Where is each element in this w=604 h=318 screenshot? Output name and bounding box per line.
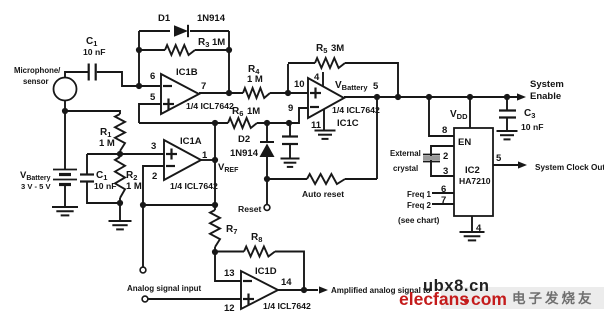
label 1/4 ICL7642 (IC1A) (170, 181, 218, 191)
svg-text:7: 7 (441, 195, 446, 206)
svg-text:3 V - 5 V: 3 V - 5 V (21, 182, 51, 191)
ground (IC2 pin4) (460, 232, 485, 240)
node VDD junction (426, 94, 432, 100)
node pin9 junction (286, 120, 292, 126)
svg-text:EN: EN (458, 137, 471, 148)
IC1C plus symbol (310, 88, 321, 99)
label 10 nF (bypass) (94, 181, 116, 191)
svg-text:2: 2 (152, 171, 157, 182)
svg-text:3: 3 (443, 166, 448, 177)
wire D2 cathode lead (266, 123, 268, 142)
node R3 left (136, 47, 142, 53)
diode D1 (174, 25, 188, 37)
op-amp IC1A (164, 140, 201, 180)
pin 13 label (224, 268, 235, 279)
resistor auto reset (307, 174, 345, 184)
pin 5 label (IC1C) (373, 81, 379, 92)
label IC1D (255, 266, 277, 277)
label External (390, 149, 421, 158)
svg-text:1/4 ICL7642: 1/4 ICL7642 (170, 181, 218, 191)
IC U2 HA7210 box (454, 128, 493, 216)
wire R8 left lead (215, 251, 244, 253)
wire pin7 lead (432, 203, 454, 205)
microphone/sensor transducer (54, 78, 77, 101)
IC1B plus symbol (163, 99, 174, 110)
label HA7210 (459, 176, 491, 186)
IC1A plus symbol (166, 149, 177, 160)
label VBattery (source) (20, 170, 51, 182)
wire R1 bottom (119, 151, 121, 154)
pin 4 stub (322, 72, 324, 86)
label R2 (126, 170, 137, 182)
svg-text:External: External (390, 149, 421, 158)
svg-text:3M: 3M (331, 43, 344, 54)
pin 3 label (151, 141, 156, 152)
node IC1B output junction (226, 90, 232, 96)
label R6 1M (232, 106, 260, 118)
terminal analog input (142, 296, 148, 302)
capacitor C3 (499, 111, 516, 118)
wire pin5 output (493, 164, 518, 166)
svg-text:sensor: sensor (23, 77, 49, 86)
node R2/C1b junction (117, 200, 123, 206)
resistor R4 (243, 88, 270, 98)
svg-text:4: 4 (314, 72, 320, 83)
wire R2 bottom (119, 198, 121, 203)
label Microphone/ (14, 66, 61, 75)
label 1 M (R4) (247, 74, 263, 85)
svg-text:13: 13 (224, 268, 235, 279)
node pin2 rail junction (140, 202, 146, 208)
svg-text:IC1C: IC1C (337, 118, 359, 129)
wire C3 bottom lead (506, 118, 508, 131)
wire auto-reset riser (376, 97, 378, 179)
svg-text:1N914: 1N914 (197, 13, 226, 24)
wire R7 bottom (214, 247, 216, 252)
wire mic bottom (64, 100, 66, 169)
wire IC1B pin5 loop (139, 104, 161, 123)
node R1/R2 junction (117, 151, 123, 157)
svg-text:IC2: IC2 (465, 165, 480, 176)
svg-text:crystal: crystal (393, 164, 418, 173)
svg-text:Analog signal input: Analog signal input (127, 284, 202, 293)
label C1 (bypass) (96, 170, 107, 182)
svg-text:1M: 1M (247, 106, 260, 117)
arrow system enable (517, 93, 526, 100)
svg-text:5: 5 (496, 153, 502, 164)
IC1B minus symbol (163, 85, 172, 87)
crystal X1 (423, 155, 440, 162)
IC1D minus symbol (243, 280, 252, 282)
wire analog input (148, 298, 241, 300)
wire VREF vertical (214, 123, 216, 210)
wire IC1B output (199, 92, 243, 94)
label R8 (251, 232, 262, 244)
resistor R1 (115, 114, 125, 151)
wire C1b top lead (86, 154, 88, 174)
svg-text:1/4 ICL7642: 1/4 ICL7642 (332, 105, 380, 115)
svg-text:1N914: 1N914 (230, 148, 259, 159)
wire mic top to C1 (65, 72, 88, 78)
svg-text:1 M: 1 M (126, 181, 142, 192)
op-amp IC1B (161, 74, 199, 114)
resistor R3 (165, 45, 195, 55)
label Freq 1 (407, 190, 432, 199)
label VREF (218, 162, 239, 174)
svg-text:HA7210: HA7210 (459, 176, 491, 186)
wire D1 row (139, 30, 229, 32)
pin 6 label (150, 71, 155, 82)
wire IC1A pin2 stub (143, 166, 164, 267)
svg-text:Freq 1: Freq 1 (407, 190, 432, 199)
pin 14 label (281, 277, 292, 288)
resistor R6 (228, 118, 257, 128)
svg-text:11: 11 (311, 120, 322, 131)
label R5 3M (316, 43, 344, 55)
label Auto reset (302, 189, 344, 199)
label IC1C (337, 118, 359, 129)
wire R6 rail left (139, 122, 228, 124)
label IC2 (465, 165, 480, 176)
wire C1b bottom lead (87, 182, 120, 204)
pin 11 ground lead (323, 109, 325, 130)
node VREF lower junction (212, 202, 218, 208)
watermark ubx8.cn (423, 277, 490, 295)
svg-text:12: 12 (224, 303, 235, 314)
arrow system clock (518, 161, 527, 168)
node auto-reset junction (374, 94, 380, 100)
node IC2 VDD junction (467, 94, 473, 100)
resistor R7 (210, 210, 220, 247)
wire IC1A output (201, 159, 215, 161)
svg-text:10 nF: 10 nF (83, 47, 105, 57)
label 1/4 ICL7642 (IC1C) (332, 105, 380, 115)
label 10 nF (C3) (521, 122, 543, 132)
label Amplified analog signal to (331, 286, 431, 295)
resistor R2 (115, 157, 125, 198)
label (see chart) (398, 216, 440, 225)
IC1D plus symbol (243, 294, 254, 305)
label sensor (23, 77, 49, 86)
resistor R5 (315, 58, 345, 68)
label System Clock Out (535, 163, 604, 172)
svg-text:com: com (471, 289, 507, 309)
watermark chinese (512, 290, 595, 306)
node R3 right (226, 47, 232, 53)
svg-text:8: 8 (442, 125, 447, 136)
svg-text:Reset: Reset (238, 204, 262, 214)
label C1 (86, 36, 97, 48)
op-amp IC1C (308, 78, 344, 118)
IC1C minus symbol (310, 106, 319, 108)
pin 5 label (150, 92, 156, 103)
pin 9 label (288, 103, 293, 114)
svg-text:D1: D1 (158, 13, 171, 24)
wire auto-reset left (267, 178, 307, 180)
label R7 (226, 224, 237, 236)
wire lower rail (143, 204, 215, 206)
wire IC1D output (278, 289, 318, 291)
node R7/R8 junction (212, 249, 218, 255)
svg-text:1 M: 1 M (99, 138, 115, 149)
watermark band (441, 287, 604, 309)
wire R2 ground lead (119, 203, 121, 221)
svg-text:1/4 ICL7642: 1/4 ICL7642 (263, 301, 311, 311)
op-amp IC1D (241, 271, 278, 309)
svg-text:9: 9 (288, 103, 293, 114)
svg-text:Auto reset: Auto reset (302, 189, 344, 199)
label 3 V - 5 V (21, 182, 51, 191)
svg-text:5: 5 (373, 81, 379, 92)
wire C1 to IC1B pin6 (97, 72, 160, 86)
node mic bottom junction (62, 108, 68, 114)
svg-text:Microphone/: Microphone/ (14, 66, 61, 75)
wire C3 top lead (506, 97, 508, 110)
node D2 anode junction (264, 176, 270, 182)
pin 10 label (294, 79, 305, 90)
ground (battery) (52, 207, 78, 215)
wire IC1C output rail (344, 96, 517, 98)
svg-text:Enable: Enable (530, 91, 561, 102)
wire pin4 lead (471, 216, 473, 232)
label 1/4 ICL7642 (IC1B) (186, 101, 234, 111)
terminal Reset (264, 205, 270, 211)
wire battery to ground (64, 185, 66, 208)
wire D2 anode lead (266, 157, 268, 179)
label Freq 2 (407, 201, 432, 210)
wire pin13 (215, 252, 241, 281)
svg-text:2: 2 (443, 151, 448, 162)
svg-text:elecfans: elecfans (399, 289, 469, 309)
pin 2 label (152, 171, 157, 182)
svg-text:1M: 1M (212, 37, 225, 48)
svg-text:电子发烧友: 电子发烧友 (512, 290, 595, 306)
pin 4 label (IC2) (476, 223, 482, 234)
svg-text:3: 3 (151, 141, 156, 152)
svg-text:System Clock Out: System Clock Out (535, 163, 604, 172)
wire auto-reset right (345, 178, 377, 180)
label R1 (100, 127, 111, 139)
pin 7 label (201, 81, 206, 92)
wire R3 row right (195, 49, 229, 51)
svg-text:IC1A: IC1A (180, 136, 202, 147)
wire divider rail (87, 153, 164, 155)
label EN (458, 137, 471, 148)
svg-text:IC1B: IC1B (176, 67, 198, 78)
ground (C3) (497, 131, 518, 139)
battery VBattery (53, 170, 77, 185)
pin 2 label (IC2) (443, 151, 448, 162)
node C3 junction (504, 94, 510, 100)
svg-text:10 nF: 10 nF (521, 122, 543, 132)
pin 11 label (311, 120, 322, 131)
svg-text:6: 6 (441, 184, 446, 195)
node D2 top junction (264, 120, 270, 126)
label IC1A (180, 136, 202, 147)
label R3 1M (198, 37, 225, 49)
svg-text:7: 7 (201, 81, 206, 92)
label C3 (524, 108, 535, 120)
capacitor C1 (input coupling) (89, 64, 96, 81)
IC1A minus symbol (166, 165, 175, 167)
watermark elecfans.com (399, 289, 507, 309)
svg-text:14: 14 (281, 277, 292, 288)
pin 7 label (IC2) (441, 195, 446, 206)
wire reset stub (266, 179, 268, 205)
pin 3 label (IC2) (443, 166, 448, 177)
wire pin8 lead (429, 97, 454, 136)
wire pin6 lead (432, 192, 454, 194)
capacitor C (pin 9) (282, 137, 298, 145)
label Reset (238, 204, 262, 214)
pin 4 label (314, 72, 320, 83)
label 10 nF (83, 47, 105, 57)
label VBattery (335, 80, 368, 92)
node IC1B pin6 junction (136, 83, 142, 89)
node R5 tap junction (285, 90, 291, 96)
pin 5 label (IC2) (496, 153, 502, 164)
svg-text:System: System (530, 79, 564, 90)
label Analog signal input (127, 284, 202, 293)
svg-text:Freq 2: Freq 2 (407, 201, 432, 210)
node VREF-R6 junction (212, 120, 218, 126)
node VREF junction (212, 157, 218, 163)
label 1N914 (D1) (197, 13, 226, 24)
label 1 M (R2) (126, 181, 142, 192)
wire feedback left vertical (138, 31, 140, 86)
svg-text:IC1D: IC1D (255, 266, 277, 277)
wire R3 row left (139, 49, 165, 51)
diode D2 (260, 142, 275, 157)
svg-text:1 M: 1 M (247, 74, 263, 85)
wire mic to R1 (65, 111, 120, 114)
node R5 right junction (395, 94, 401, 100)
svg-text:1/4 ICL7642: 1/4 ICL7642 (186, 101, 234, 111)
wire VDD lead (469, 97, 471, 128)
label VDD (450, 109, 468, 121)
node IC1D output junction (301, 287, 307, 293)
pin 1 label (202, 150, 208, 161)
wire cap9 top lead (289, 123, 291, 136)
arrow amplified output (319, 286, 328, 293)
svg-text:(see chart): (see chart) (398, 216, 440, 225)
label 1 M (R1) (99, 138, 115, 149)
label 1N914 (D2) (230, 148, 259, 159)
svg-text:D2: D2 (238, 134, 250, 145)
label System (530, 79, 564, 90)
label D2 (238, 134, 250, 145)
label Enable (530, 91, 561, 102)
ground (IC1C pin 11) (315, 131, 336, 139)
svg-text:5: 5 (150, 92, 156, 103)
wire R5 row right + down (345, 63, 398, 97)
label IC1B (176, 67, 198, 78)
resistor R8 (244, 247, 275, 257)
terminal aux input (140, 267, 146, 273)
ground (pin9 cap) (281, 159, 300, 167)
wire feedback right vertical (228, 31, 230, 93)
label D1 (158, 13, 171, 24)
wire R5 row left (288, 62, 315, 64)
pin 12 label (224, 303, 235, 314)
wire R8 to output (275, 252, 304, 291)
pin 6 label (IC2) (441, 184, 446, 195)
wire R5 left vertical (287, 64, 289, 93)
capacitor C1 (bypass) (80, 175, 94, 182)
wire R4 to IC1C pin10 (270, 92, 308, 94)
svg-text:10: 10 (294, 79, 305, 90)
label 1/4 ICL7642 (IC1D) (263, 301, 311, 311)
wire cap9 bottom lead (289, 144, 291, 158)
svg-text:10 nF: 10 nF (94, 181, 116, 191)
wire pin9 riser (289, 108, 308, 123)
svg-text:6: 6 (150, 71, 155, 82)
label crystal (393, 164, 418, 173)
wire R6 rail right (257, 122, 289, 124)
ground (R2) (109, 221, 132, 229)
label R4 (248, 64, 260, 76)
wire crystal bracket (431, 146, 454, 176)
pin 8 label (442, 125, 447, 136)
